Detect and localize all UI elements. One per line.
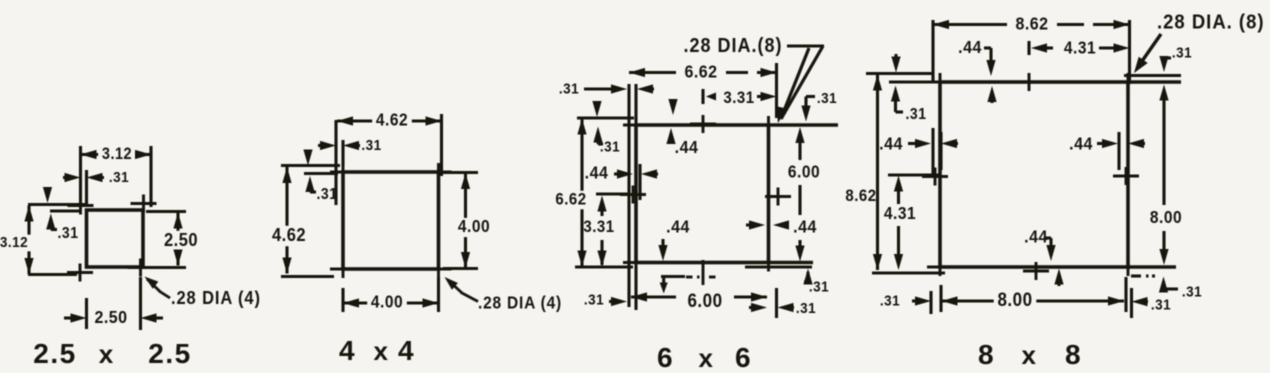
- svg-text:2.5: 2.5: [33, 338, 76, 369]
- svg-text:3.12: 3.12: [102, 145, 132, 163]
- svg-text:.31: .31: [109, 169, 129, 186]
- svg-text:.28 DIA. (8): .28 DIA. (8): [1157, 11, 1265, 34]
- svg-text:x: x: [99, 339, 114, 369]
- svg-text:4.00: 4.00: [458, 217, 490, 236]
- svg-text:.31: .31: [559, 81, 579, 98]
- svg-text:3.31: 3.31: [723, 89, 754, 107]
- svg-text:x: x: [374, 336, 389, 366]
- svg-text:8: 8: [1065, 339, 1081, 370]
- svg-text:8.00: 8.00: [1150, 208, 1182, 227]
- svg-text:6.62: 6.62: [555, 191, 586, 209]
- svg-text:4.00: 4.00: [371, 293, 403, 312]
- svg-text:.28 DIA (4): .28 DIA (4): [478, 294, 562, 313]
- svg-text:.44: .44: [585, 163, 609, 183]
- svg-text:3.31: 3.31: [583, 218, 614, 236]
- svg-text:.44: .44: [666, 217, 690, 237]
- svg-text:.31: .31: [796, 300, 816, 317]
- svg-text:6.00: 6.00: [687, 290, 722, 311]
- svg-text:4.62: 4.62: [376, 111, 408, 130]
- svg-text:.31: .31: [317, 186, 338, 203]
- svg-text:4: 4: [398, 335, 414, 366]
- svg-text:.28 DIA (4): .28 DIA (4): [171, 287, 261, 308]
- svg-text:.31: .31: [906, 106, 927, 123]
- svg-text:8.00: 8.00: [997, 289, 1032, 310]
- svg-text:.28 DIA.(8): .28 DIA.(8): [683, 35, 782, 57]
- svg-text:.44: .44: [675, 137, 699, 157]
- svg-text:.31: .31: [817, 90, 837, 107]
- svg-text:4.31: 4.31: [1064, 39, 1096, 58]
- svg-text:6.00: 6.00: [788, 163, 820, 182]
- svg-text:.44: .44: [793, 217, 817, 237]
- svg-text:.31: .31: [809, 279, 829, 296]
- svg-text:3.12: 3.12: [0, 234, 28, 251]
- svg-text:x: x: [1022, 340, 1037, 370]
- svg-text:.31: .31: [880, 293, 900, 310]
- svg-text:4.31: 4.31: [884, 204, 916, 223]
- svg-text:.31: .31: [600, 139, 620, 156]
- svg-text:6: 6: [735, 342, 751, 373]
- svg-text:.44: .44: [879, 134, 903, 154]
- svg-text:8: 8: [978, 339, 994, 370]
- svg-text:.31: .31: [1182, 284, 1202, 301]
- svg-text:4.62: 4.62: [272, 224, 306, 245]
- svg-text:.44: .44: [1069, 134, 1093, 154]
- svg-text:4: 4: [339, 335, 355, 366]
- svg-text:8.62: 8.62: [845, 187, 876, 205]
- svg-text:2.50: 2.50: [94, 307, 127, 327]
- svg-text:.31: .31: [361, 137, 381, 154]
- svg-text:.31: .31: [584, 292, 604, 309]
- svg-text:x: x: [699, 343, 714, 373]
- svg-text:2.5: 2.5: [148, 338, 191, 369]
- svg-text:6: 6: [657, 342, 673, 373]
- svg-text:.31: .31: [1151, 297, 1171, 314]
- svg-text:8.62: 8.62: [1015, 14, 1048, 34]
- svg-text:.31: .31: [58, 225, 79, 242]
- svg-text:6.62: 6.62: [684, 62, 717, 82]
- svg-text:2.50: 2.50: [164, 229, 198, 250]
- svg-text:.44: .44: [958, 37, 982, 57]
- svg-text:.31: .31: [1172, 45, 1192, 62]
